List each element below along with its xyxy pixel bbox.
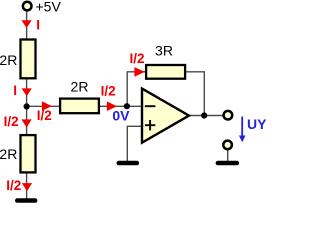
terminal +5V — [23, 2, 32, 11]
op-amp minus sign — [145, 105, 156, 107]
terminal UY upper — [224, 111, 233, 120]
ground (bottom left) — [15, 198, 37, 203]
svg-text:UY: UY — [247, 116, 266, 132]
svg-text:0V: 0V — [112, 107, 130, 123]
wire from +5V terminal to R1 — [26, 11, 28, 40]
svg-text:3R: 3R — [155, 43, 173, 59]
wire node B up to feedback — [126, 72, 128, 107]
voltage arrow UY — [241, 117, 243, 137]
op-amp plus sign — [145, 124, 155, 126]
wire feedback to R4 — [127, 71, 146, 73]
svg-text:2R: 2R — [71, 79, 89, 95]
current arrow I/2 (right of R3) — [107, 101, 117, 111]
node B junction (0V node) — [124, 103, 130, 109]
resistor R4 3R (feedback, horizontal) — [146, 65, 185, 79]
current arrow I (top) — [22, 20, 32, 28]
wire op-amp noninverting input — [127, 126, 142, 161]
ground (bottom right) — [216, 161, 240, 166]
current arrow I/2 (feedback) — [134, 67, 144, 77]
wire node A to R3 — [27, 105, 60, 107]
wire R1 to R2 through node A — [26, 79, 28, 135]
svg-text:I: I — [36, 17, 40, 32]
resistor R1 2R (upper left, vertical) — [21, 40, 36, 79]
resistor R2 2R (lower left, vertical) — [21, 135, 36, 172]
svg-text:2R: 2R — [0, 52, 17, 68]
svg-text:2R: 2R — [0, 146, 17, 162]
current arrow I (above node A) — [22, 88, 32, 96]
wire lower terminal to ground — [227, 150, 229, 162]
resistor R3 2R (horizontal) — [60, 99, 99, 114]
terminal UY lower — [223, 141, 232, 150]
svg-text:I/2: I/2 — [6, 178, 21, 193]
wire R3 to op-amp inverting input through node B — [100, 105, 143, 107]
wire op-amp output to terminal UY through node C — [188, 115, 224, 117]
wire R4 to output node C — [186, 72, 204, 116]
node A junction — [24, 103, 30, 109]
node C junction (output) — [201, 112, 207, 118]
current arrow I/2 (below node A) — [22, 119, 32, 127]
svg-text:I/2: I/2 — [101, 84, 116, 99]
svg-text:+5V: +5V — [36, 0, 62, 14]
svg-text:I/2: I/2 — [129, 51, 144, 66]
ground (below op-amp) — [117, 161, 140, 166]
current arrow I/2 (left of R3) — [42, 101, 52, 111]
svg-text:I: I — [13, 83, 17, 98]
op-amp U1 — [142, 89, 189, 143]
current arrow I/2 (above ground left) — [22, 183, 32, 191]
wire R2 to ground — [26, 173, 28, 199]
svg-text:I/2: I/2 — [37, 108, 52, 123]
svg-text:I/2: I/2 — [4, 114, 19, 129]
